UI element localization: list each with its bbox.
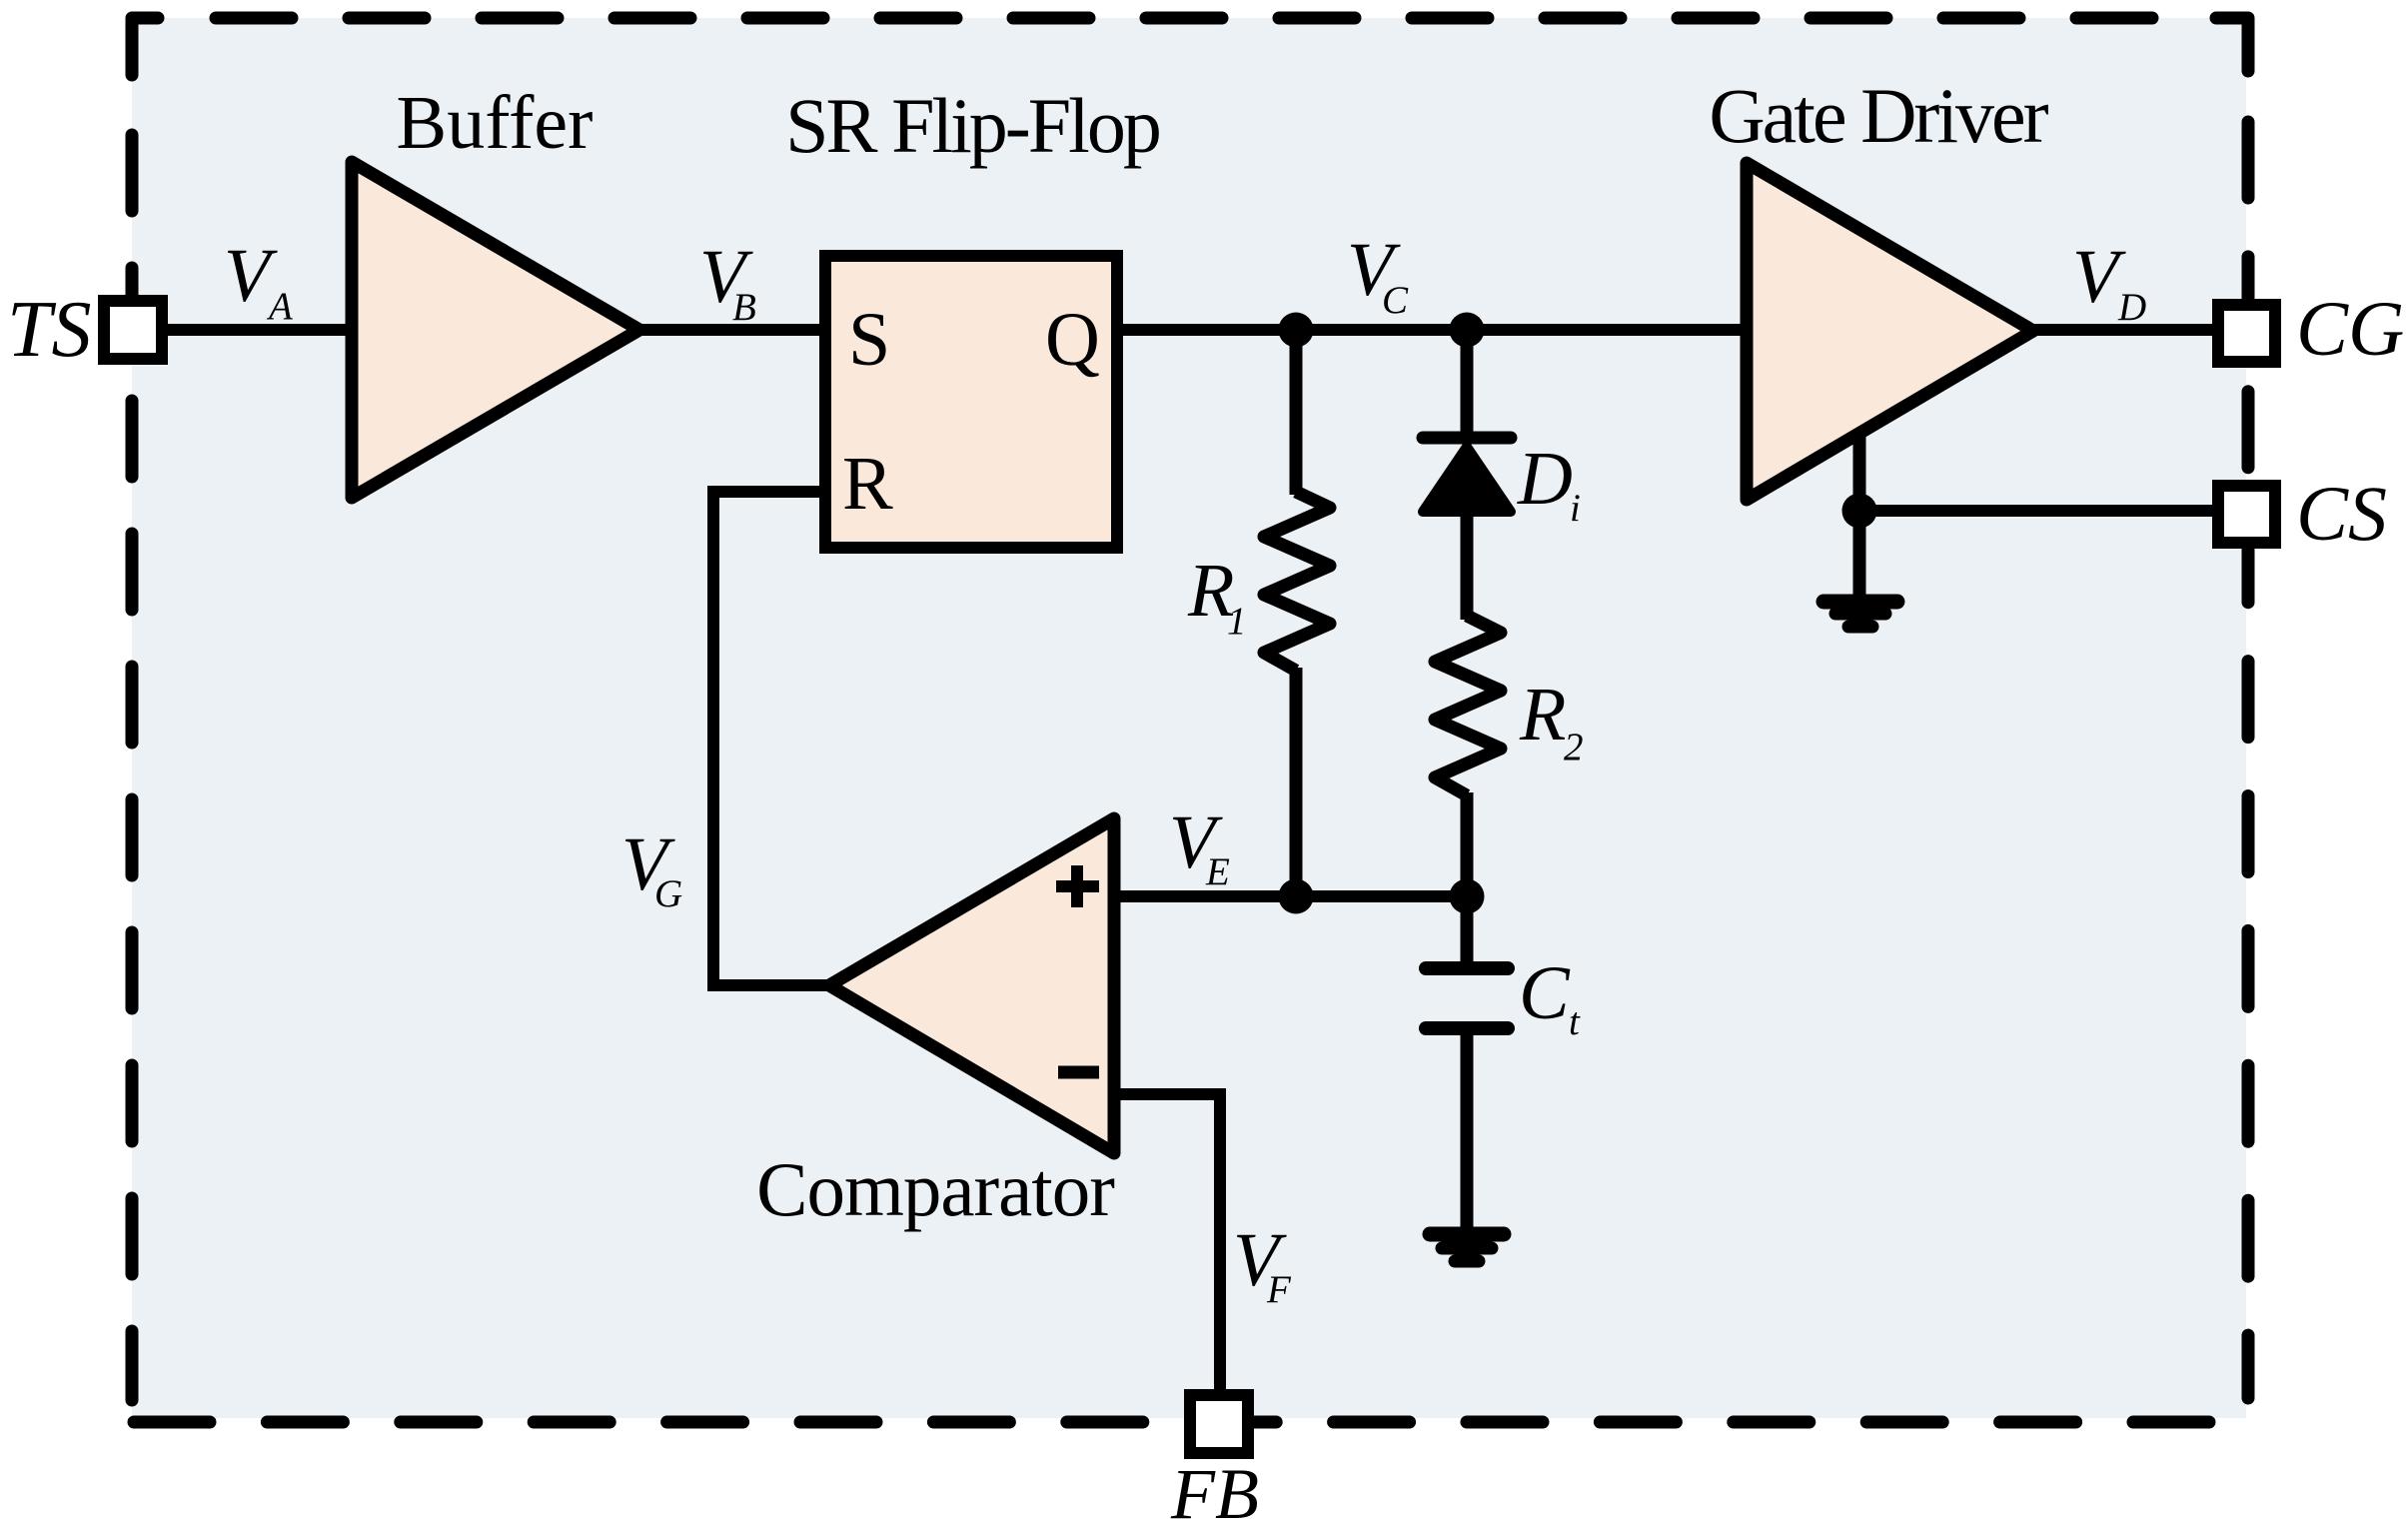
comparator minus input marker xyxy=(1058,1066,1099,1079)
buffer U1 xyxy=(352,162,639,498)
wire diode branch upper xyxy=(1461,330,1474,440)
node label V_E xyxy=(1169,800,1230,893)
node at R1 top xyxy=(1279,313,1314,348)
svg-text:Gate Driver: Gate Driver xyxy=(1709,72,2048,159)
border corner top-right xyxy=(2216,18,2248,71)
wire buffer to SR flip-flop S input xyxy=(633,324,825,336)
svg-text:S: S xyxy=(848,298,890,382)
svg-text:TS: TS xyxy=(7,286,92,374)
svg-text:B: B xyxy=(732,286,756,329)
node at diode top xyxy=(1450,313,1485,348)
svg-text:SR Flip-Flop: SR Flip-Flop xyxy=(785,82,1159,169)
dashed chip border bottom xyxy=(134,1416,2210,1429)
wire capacitor to ground xyxy=(1461,1028,1474,1231)
wire comparator plus input to V_E node xyxy=(1114,890,1467,902)
node label V_D xyxy=(2072,235,2146,329)
svg-text:D: D xyxy=(1517,437,1573,521)
svg-text:Q: Q xyxy=(1045,298,1100,382)
wire R2 to V_E node xyxy=(1461,792,1474,896)
label R2 xyxy=(1519,673,1584,768)
label Ct xyxy=(1519,951,1581,1043)
wire R1 branch lower xyxy=(1290,668,1303,896)
diode Di xyxy=(1423,438,1511,512)
terminal CS xyxy=(2218,486,2275,543)
wire gate driver to CG xyxy=(2028,324,2218,336)
SR flip-flop box xyxy=(825,256,1117,548)
comparator U3 xyxy=(829,818,1114,1153)
wire R input loop (V_G) xyxy=(713,492,835,985)
svg-text:FB: FB xyxy=(1170,1454,1259,1527)
wire V_E node to capacitor xyxy=(1461,896,1474,962)
wire CS tap xyxy=(1859,505,2218,517)
wire gate driver to ground stem xyxy=(1853,435,1866,598)
gate driver U2 xyxy=(1747,163,2033,500)
svg-text:Buffer: Buffer xyxy=(397,81,594,165)
label R1 xyxy=(1187,549,1247,643)
resistor R2 xyxy=(1435,616,1501,795)
svg-text:t: t xyxy=(1569,1000,1581,1043)
svg-text:F: F xyxy=(1266,1268,1292,1311)
svg-text:i: i xyxy=(1570,487,1581,530)
dashed chip border top xyxy=(216,12,2166,25)
ground below capacitor xyxy=(1430,1234,1504,1261)
svg-text:D: D xyxy=(2117,286,2146,329)
node label V_C xyxy=(1347,228,1409,322)
node label V_B xyxy=(699,235,756,329)
svg-text:R: R xyxy=(1519,673,1566,757)
wire R1 branch upper xyxy=(1290,330,1303,495)
capacitor Ct xyxy=(1426,968,1508,1028)
svg-text:2: 2 xyxy=(1564,726,1584,768)
wire TS to buffer xyxy=(162,324,352,336)
dashed chip border left xyxy=(126,135,139,1400)
node label V_A xyxy=(224,234,293,328)
terminal CG xyxy=(2218,305,2275,362)
svg-text:CS: CS xyxy=(2296,470,2387,557)
wire Q output to gate driver xyxy=(1117,324,1747,336)
wire diode to R2 xyxy=(1461,515,1474,620)
svg-text:Comparator: Comparator xyxy=(756,1146,1114,1232)
label Di xyxy=(1517,437,1581,530)
svg-text:R: R xyxy=(842,442,893,526)
dashed chip border right xyxy=(2242,122,2255,1398)
node V_E left xyxy=(1279,879,1314,914)
svg-text:A: A xyxy=(266,285,293,328)
terminal TS xyxy=(104,301,162,359)
node V_E right xyxy=(1450,879,1485,914)
svg-text:C: C xyxy=(1382,279,1409,322)
svg-text:E: E xyxy=(1205,850,1230,893)
border corner top-left xyxy=(132,18,158,75)
resistor R1 xyxy=(1264,492,1330,671)
svg-text:G: G xyxy=(654,872,682,915)
svg-text:1: 1 xyxy=(1227,600,1247,643)
node label V_F xyxy=(1233,1218,1292,1311)
svg-text:CG: CG xyxy=(2296,285,2404,372)
node label V_G xyxy=(621,822,682,915)
svg-text:C: C xyxy=(1519,951,1571,1035)
ground below gate driver xyxy=(1823,602,1897,627)
node at gate driver ground tap xyxy=(1842,494,1877,529)
terminal FB xyxy=(1190,1395,1248,1453)
wire comparator minus input to FB xyxy=(1114,1094,1220,1395)
comparator plus input marker xyxy=(1056,865,1099,907)
